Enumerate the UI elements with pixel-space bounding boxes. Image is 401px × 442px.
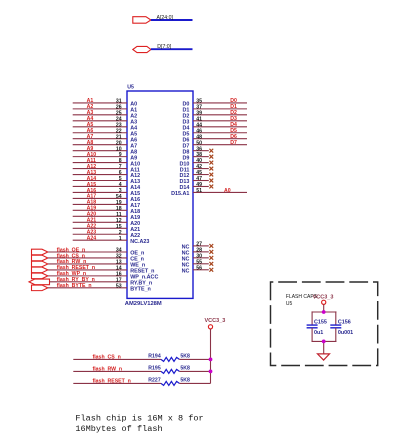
wire net flash_RW_n to U5 pin 13 <box>48 263 127 265</box>
junction bottom <box>322 340 326 344</box>
wire net A17 to U5 pin 54 <box>73 197 127 199</box>
wire net D1 from U5 pin 37 <box>193 108 247 110</box>
svg-text:flash_BYTE_n: flash_BYTE_n <box>57 283 92 289</box>
wire net A0 from U5 pin 51 <box>193 191 247 193</box>
no-connect X pin 28 <box>209 250 213 254</box>
wire net A19 to U5 pin 18 <box>73 209 127 211</box>
no-connect X pin 49 <box>209 185 213 189</box>
wire net flash_RW_n to resistor R195 <box>73 370 161 372</box>
no-connect stub U5 pin 56 (NC) <box>193 269 209 271</box>
no-connect stub U5 pin 45 <box>193 174 209 176</box>
wire net A24 to U5 pin 1 <box>73 239 127 241</box>
input port flash_BYTE_n <box>32 285 48 291</box>
wire net A1 to U5 pin 31 <box>73 102 127 104</box>
no-connect X pin 42 <box>209 167 213 171</box>
wire net A16 to U5 pin 3 <box>73 191 127 193</box>
wire VCC3_3 vertical rail <box>210 329 212 383</box>
wire net flash_RY_BY_n to U5 pin 17 <box>50 281 128 283</box>
svg-text:BYTE_n: BYTE_n <box>130 287 151 293</box>
wire net flash_CS_n to resistor R194 <box>73 358 161 360</box>
wire left branch lower <box>311 328 313 342</box>
svg-text:A0: A0 <box>224 188 231 194</box>
wire net D2 from U5 pin 39 <box>193 114 247 116</box>
junction top <box>322 310 326 314</box>
svg-text:U5: U5 <box>286 301 293 307</box>
svg-text:R195: R195 <box>148 366 161 372</box>
svg-text:R227: R227 <box>148 378 161 384</box>
no-connect stub U5 pin 28 (NC) <box>193 251 209 253</box>
svg-text:NC: NC <box>182 268 190 274</box>
resistor R195 <box>161 369 179 373</box>
wire net A2 to U5 pin 26 <box>73 108 127 110</box>
wire net flash_RESET_n to resistor R227 <box>73 382 161 384</box>
wire net A9 to U5 pin 10 <box>73 150 127 152</box>
input port flash_RESET_n <box>32 267 48 273</box>
input port flash_CS_n <box>32 255 48 261</box>
wire to ground <box>323 341 325 354</box>
no-connect X pin 56 <box>209 268 213 272</box>
junction <box>209 358 213 362</box>
svg-text:VCC3_3: VCC3_3 <box>205 318 226 324</box>
wire net A5 to U5 pin 23 <box>73 126 127 128</box>
svg-text:1: 1 <box>119 236 122 242</box>
wire net A20 to U5 pin 11 <box>73 215 127 217</box>
svg-text:D15.A1: D15.A1 <box>171 191 189 197</box>
capacitor C156 <box>330 325 341 328</box>
no-connect X pin 38 <box>209 155 213 159</box>
wire net D0 from U5 pin 35 <box>193 102 247 104</box>
svg-text:C156: C156 <box>338 320 351 326</box>
bus wire A[24:0] <box>151 19 193 21</box>
power symbol VCC3_3 (pull-ups) <box>208 325 212 329</box>
wire net A22 to U5 pin 15 <box>73 227 127 229</box>
svg-text:C155: C155 <box>314 320 327 326</box>
wire net D7 from U5 pin 50 <box>193 144 247 146</box>
svg-text:53: 53 <box>116 283 122 289</box>
wire R195 to VCC3_3 rail <box>179 370 210 372</box>
bus wire D[7:0] <box>151 48 193 50</box>
wire left branch upper <box>311 311 313 325</box>
input port flash_OE_n <box>32 249 48 255</box>
svg-text:5K8: 5K8 <box>180 378 190 384</box>
svg-text:A[24:0]: A[24:0] <box>157 15 174 21</box>
wire net A18 to U5 pin 19 <box>73 203 127 205</box>
wire net D5 from U5 pin 46 <box>193 132 247 134</box>
no-connect stub U5 pin 30 (NC) <box>193 257 209 259</box>
svg-text:VCC3_3: VCC3_3 <box>313 294 334 300</box>
resistor R194 <box>161 357 179 361</box>
svg-text:flash_CS_n: flash_CS_n <box>93 355 121 361</box>
svg-text:0u1: 0u1 <box>314 330 323 336</box>
wire VCC3_3 to top rail <box>323 305 325 313</box>
wire net A7 to U5 pin 21 <box>73 138 127 140</box>
svg-text:R194: R194 <box>148 354 161 360</box>
wire net flash_BYTE_n to U5 pin 53 <box>48 287 127 289</box>
junction <box>209 370 213 374</box>
no-connect X pin 55 <box>209 262 213 266</box>
no-connect stub U5 pin 42 <box>193 168 209 170</box>
wire net D6 from U5 pin 48 <box>193 138 247 140</box>
svg-text:flash_RW_n: flash_RW_n <box>93 367 123 373</box>
wire net A13 to U5 pin 6 <box>73 174 127 176</box>
wire net A14 to U5 pin 5 <box>73 180 127 182</box>
wire net D4 from U5 pin 44 <box>193 126 247 128</box>
wire right branch lower <box>335 328 337 342</box>
wire net A23 to U5 pin 2 <box>73 233 127 235</box>
no-connect stub U5 pin 55 (NC) <box>193 263 209 265</box>
wire net A21 to U5 pin 12 <box>73 221 127 223</box>
no-connect stub U5 pin 47 <box>193 180 209 182</box>
svg-text:flash_RESET_n: flash_RESET_n <box>93 379 131 385</box>
no-connect X pin 45 <box>209 173 213 177</box>
svg-text:A24: A24 <box>87 236 97 242</box>
svg-text:56: 56 <box>196 265 202 271</box>
resistor R227 <box>161 381 179 385</box>
wire R227 to VCC3_3 rail <box>179 382 210 384</box>
svg-text:D7: D7 <box>230 140 237 146</box>
svg-text:U5: U5 <box>127 85 134 91</box>
no-connect stub U5 pin 49 <box>193 185 209 187</box>
ground symbol <box>318 354 330 360</box>
svg-text:Flash chip is 16M x 8 for: Flash chip is 16M x 8 for <box>75 414 203 424</box>
no-connect X pin 30 <box>209 256 213 260</box>
wire net A11 to U5 pin 8 <box>73 162 127 164</box>
wire net A10 to U5 pin 9 <box>73 156 127 158</box>
svg-text:51: 51 <box>196 188 202 194</box>
svg-text:5K8: 5K8 <box>180 366 190 372</box>
wire net flash_WP_n to U5 pin 16 <box>48 275 127 277</box>
svg-text:5K8: 5K8 <box>180 354 190 360</box>
no-connect stub U5 pin 40 <box>193 162 209 164</box>
no-connect X pin 40 <box>209 161 213 165</box>
no-connect stub U5 pin 38 <box>193 156 209 158</box>
wire net flash_CS_n to U5 pin 32 <box>48 257 127 259</box>
svg-text:0u001: 0u001 <box>338 330 353 336</box>
wire R194 to VCC3_3 rail <box>179 358 210 360</box>
capacitor C155 <box>307 325 318 328</box>
wire net A4 to U5 pin 24 <box>73 120 127 122</box>
IC U5 body <box>127 91 193 298</box>
wire top rail <box>312 311 337 313</box>
wire right branch upper <box>335 311 337 325</box>
wire net A15 to U5 pin 4 <box>73 185 127 187</box>
wire net A12 to U5 pin 7 <box>73 168 127 170</box>
wire net A8 to U5 pin 20 <box>73 144 127 146</box>
svg-text:NC.A23: NC.A23 <box>130 239 149 245</box>
wire net flash_RESET_n to U5 pin 14 <box>48 269 127 271</box>
no-connect X pin 36 <box>209 149 213 153</box>
svg-text:D[7:0]: D[7:0] <box>157 44 171 50</box>
bidirectional port D[7:0] <box>133 46 151 52</box>
svg-text:16Mbytes of flash: 16Mbytes of flash <box>75 424 162 434</box>
wire net D3 from U5 pin 41 <box>193 120 247 122</box>
no-connect stub U5 pin 36 <box>193 150 209 152</box>
wire net A3 to U5 pin 25 <box>73 114 127 116</box>
input port A[24:0] <box>133 17 151 24</box>
no-connect X pin 27 <box>209 244 213 248</box>
input port flash_WP_n <box>32 273 48 279</box>
dashed group box FLASH CAPS <box>271 282 378 366</box>
wire net A6 to U5 pin 22 <box>73 132 127 134</box>
input port flash_RW_n <box>32 261 48 267</box>
power symbol VCC3_3 (caps) <box>322 300 326 304</box>
wire net flash_OE_n to U5 pin 34 <box>48 251 127 253</box>
no-connect X pin 47 <box>209 179 213 183</box>
wire bottom rail <box>312 340 337 342</box>
output port flash_RY_BY_n <box>29 279 50 285</box>
svg-text:AM29LV128M: AM29LV128M <box>125 301 162 307</box>
no-connect stub U5 pin 27 (NC) <box>193 245 209 247</box>
